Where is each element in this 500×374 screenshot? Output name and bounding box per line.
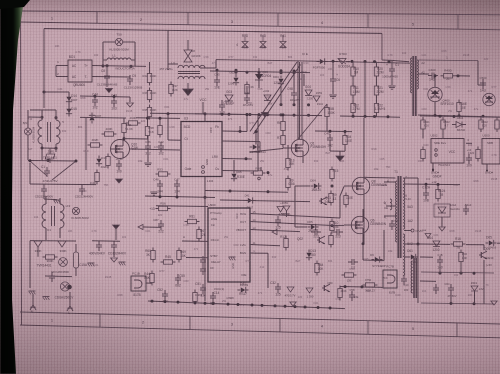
terminal N <box>32 299 34 305</box>
resistor X750 <box>366 283 375 287</box>
ruler bottom line B <box>20 325 500 338</box>
capacitor C50 <box>49 275 55 277</box>
capacitor C52 <box>162 293 168 295</box>
diode D1 <box>320 59 324 64</box>
resistor R37b <box>169 85 173 94</box>
wire t1 prim bot link <box>363 259 384 262</box>
IC U3 pin circles <box>202 166 205 169</box>
wire q8q6 mid <box>362 234 364 244</box>
resistor R60 <box>151 251 155 260</box>
wire q8 src <box>363 195 365 205</box>
wire vcc stub <box>202 102 204 114</box>
wire C8 drop <box>106 66 108 72</box>
wire c96 col <box>246 86 248 94</box>
junction aux a <box>216 69 219 72</box>
resistor R10b <box>330 222 334 231</box>
zener Z019 <box>471 286 478 291</box>
junction r6 top <box>282 113 285 116</box>
wire gnd join q1 <box>330 150 345 152</box>
wire LF1 tops join <box>30 109 56 111</box>
inductor L1 <box>107 58 131 60</box>
junction r38 top <box>146 117 149 120</box>
resistor R16 sec <box>454 242 463 246</box>
wire c34 top <box>92 240 120 242</box>
transistor Q04 <box>480 252 482 258</box>
wire u900 bottom bus <box>148 301 345 309</box>
wire r10 col d <box>352 113 354 116</box>
wire c1 to t1 <box>392 60 409 61</box>
ruler bottom divider 4 <box>367 321 369 335</box>
wire mid row a <box>205 191 288 193</box>
junction C43 top <box>113 95 116 98</box>
junction q10 gate row <box>123 137 126 140</box>
wire t2 out drop <box>477 61 479 85</box>
wire LF1 A bot <box>41 144 43 160</box>
node VD circle <box>411 229 414 232</box>
wire t3 right <box>420 280 436 282</box>
ruler bottom divider 1 <box>99 314 101 327</box>
wire u900 right lvg <box>250 245 280 246</box>
wire LF1 B top <box>55 110 57 120</box>
border frame left vertical <box>21 11 22 325</box>
junction LF1 TR <box>55 116 58 119</box>
wire q8 drain link <box>364 176 370 178</box>
junction fuse R <box>130 65 133 68</box>
wire sec row1b <box>466 244 484 246</box>
wire q8 drain <box>363 118 365 177</box>
ground C6 <box>329 94 336 96</box>
transistor Q02 <box>318 237 320 243</box>
junction pc7b a <box>361 285 364 288</box>
ruler top divider 1 <box>96 12 98 24</box>
wire sec col4 <box>417 272 419 281</box>
resistor R28 <box>95 173 99 182</box>
junction sec c <box>473 272 476 275</box>
junction bottom bus x195 <box>194 301 197 304</box>
wire fb drop <box>239 126 241 131</box>
wire d02 drop <box>235 70 237 76</box>
wire lrv r36 <box>260 167 262 171</box>
resistor R311 <box>421 120 425 129</box>
wire fuse branch R <box>134 42 136 66</box>
wire mid row b <box>220 200 310 202</box>
junction vcc l <box>167 112 170 115</box>
junction bot row b <box>364 115 367 118</box>
wire aux row <box>210 71 310 73</box>
wire r10 col a <box>352 61 354 67</box>
capacitor C1X <box>44 170 50 172</box>
junction snub c <box>364 60 367 63</box>
diode D64 sec <box>433 241 440 247</box>
wire lf2 row <box>30 240 76 242</box>
wire t1 prim bot up <box>383 230 385 261</box>
junction rail a3 <box>258 71 261 74</box>
wire u900 right bgn <box>250 252 268 254</box>
wire q1 gate run <box>250 149 283 153</box>
transformer L3 coil top <box>178 65 205 68</box>
IC U900 body <box>208 208 250 282</box>
wire CX2 gnd <box>43 194 45 199</box>
ground pc1b <box>119 261 126 263</box>
junction c13 top <box>159 117 162 120</box>
wire l2 vert <box>167 30 169 70</box>
wire sec feed <box>404 243 420 245</box>
IC U502 pin circles <box>435 149 438 152</box>
junction LF1 BL <box>41 147 44 150</box>
transistor Q500 inner <box>486 96 494 100</box>
resistor R40D <box>444 74 453 78</box>
transformer T1 sec B <box>403 234 405 276</box>
junction bottom bus x238 <box>237 303 240 306</box>
wire r40d out <box>456 75 471 77</box>
junction aux2 d <box>293 103 296 106</box>
diode G504 <box>456 122 462 128</box>
wire u3 cs col <box>257 115 259 171</box>
wire c36 top <box>147 136 149 144</box>
junction 12v b <box>437 183 440 186</box>
wire q1 col <box>287 145 289 159</box>
wire q400 top <box>434 76 436 87</box>
mosfet Q10 <box>111 140 130 159</box>
wire c34 drop <box>98 241 100 242</box>
wire c1 top <box>382 59 392 61</box>
wire C44 C43 top <box>80 96 130 97</box>
junction fb col <box>246 113 249 116</box>
diode D13b <box>306 253 311 257</box>
wire bridge pin2 <box>56 76 68 78</box>
wire bridge pin1 <box>56 65 68 67</box>
wire q6 src bus <box>362 244 364 260</box>
wire q04 drop <box>483 260 485 304</box>
capacitor C43 <box>111 100 117 102</box>
wire N drop <box>32 294 34 299</box>
capacitor C8 <box>104 75 110 77</box>
junction bot row d <box>387 115 390 118</box>
U502 gnd dot2 <box>432 170 434 172</box>
wire bridge out bot <box>92 76 130 79</box>
IC U502 body <box>431 139 464 164</box>
junction rail a5 <box>293 71 296 74</box>
capacitor C48 <box>157 183 163 185</box>
wire t1 12v row <box>404 183 461 186</box>
wire gnd stub <box>115 229 117 240</box>
capacitor C1B <box>437 259 443 261</box>
dark bezel left edge <box>0 0 24 374</box>
varistor R7D sym <box>242 42 248 48</box>
resistor R40b <box>245 85 249 94</box>
capacitor C14 <box>210 295 216 297</box>
resistor R24 <box>105 132 114 136</box>
capacitor C500 <box>480 82 486 84</box>
diode D6 <box>253 144 257 149</box>
wire u502 drop b <box>422 129 424 139</box>
wire q10 col <box>123 118 125 122</box>
diode G02 <box>233 78 238 82</box>
wire fuse right <box>123 41 135 43</box>
resistor R10 <box>351 67 355 76</box>
ruler top divider 2 <box>187 12 189 24</box>
transformer T2 primary <box>411 58 412 93</box>
junction c49 <box>329 130 332 133</box>
junction sec b <box>460 272 463 275</box>
junction r36 right <box>267 171 270 174</box>
junction aux e <box>258 113 261 116</box>
bridge rectifier BD1 <box>68 60 92 82</box>
choke LF2 winding B <box>60 204 64 228</box>
junction aux c <box>221 113 224 116</box>
wire t1 tap vd <box>404 230 411 232</box>
wire top bus drop <box>381 33 383 60</box>
choke LF1 winding A <box>38 120 42 144</box>
transistor Q500 circle <box>483 93 495 105</box>
ground mid q1 <box>336 156 344 161</box>
wire q400 drop <box>434 102 436 116</box>
varistor Z2b <box>58 241 66 247</box>
wire pin4 <box>466 142 472 144</box>
thermistor RT1 circle <box>25 128 32 135</box>
junction bottom bus x305 <box>304 306 307 309</box>
optocoupler PC7B inner <box>387 275 395 283</box>
wire LF2 A top <box>45 196 47 204</box>
capacitor C51 <box>200 287 206 289</box>
junction t2 bot a <box>434 114 437 117</box>
ground small mid <box>229 256 236 258</box>
junction drv a <box>331 185 334 188</box>
capacitor C36b <box>275 219 281 221</box>
resistor R6 <box>281 122 285 131</box>
resistor R38 <box>145 127 149 136</box>
wire res chain <box>149 70 151 73</box>
zener D13 <box>96 159 101 163</box>
fuse T50 input <box>115 38 122 45</box>
wire pc1b right <box>146 282 152 284</box>
wire c36 join <box>147 152 149 162</box>
capacitor C42b <box>314 229 316 235</box>
junction aux d <box>246 113 249 116</box>
capacitor C97 <box>219 104 225 106</box>
wire c47 gnd <box>176 190 178 197</box>
resistor R20 <box>374 67 378 76</box>
wire ce link <box>386 205 395 207</box>
junction sec top <box>417 243 420 246</box>
resistor R11 <box>351 86 355 95</box>
wire L drop <box>69 292 71 300</box>
wire u502 row <box>420 116 500 117</box>
wire q04 top <box>483 245 485 250</box>
varistor ZNR1 <box>45 154 55 159</box>
zener G03 <box>225 95 233 101</box>
IC U3 body <box>181 122 222 177</box>
choke LF1 winding B <box>56 120 60 144</box>
varistor D64b <box>306 288 313 293</box>
ground u3 a <box>150 191 157 193</box>
junction t2 bot b <box>458 114 461 117</box>
IC U502 gnd dot <box>432 168 434 170</box>
wire fb col up <box>246 115 248 132</box>
wire LF2 B top <box>59 198 61 204</box>
zener G088 box <box>434 204 450 217</box>
transformer T2 sec <box>417 60 418 89</box>
wire CX gnd link <box>44 198 57 201</box>
wire r10 col b <box>352 76 354 86</box>
wire u502 drop a <box>442 129 444 139</box>
wire c6 gnd <box>332 84 334 94</box>
wire c1 drop <box>391 60 393 66</box>
ground filter mid <box>106 89 113 93</box>
wire fuse branch L <box>102 42 104 66</box>
junction rail b5 <box>293 114 296 117</box>
wire sec row2 <box>420 256 433 258</box>
resistor R502 <box>441 120 445 129</box>
wire d05 col <box>233 160 235 171</box>
wire u3 fb out <box>222 130 247 133</box>
wire q10 col2 <box>123 133 125 139</box>
diode D04 <box>314 183 318 188</box>
varistor R41 lead <box>282 35 284 42</box>
wire CX3 drop <box>81 184 83 186</box>
wire CX2 drop <box>43 184 45 186</box>
wire t2 drop link <box>478 84 483 86</box>
resistor R312 <box>479 120 483 129</box>
wire q6 gate stub <box>344 224 351 226</box>
wire sec col2 <box>417 244 419 257</box>
wire out to q6 <box>330 224 344 226</box>
wire left col x30 <box>29 163 31 184</box>
wire sec row1 <box>420 243 450 245</box>
wire r124 drop <box>437 185 439 190</box>
ground input A <box>29 290 36 292</box>
wire t1 sec col <box>417 178 419 244</box>
wire r6 r7 join <box>282 131 284 136</box>
wire u900 right hvg <box>250 214 340 219</box>
capacitor C12A <box>423 192 429 194</box>
optocoupler PC1B <box>131 276 146 291</box>
wire u900 right out <box>250 222 330 226</box>
optocoupler PC7B <box>383 270 397 288</box>
diode R7D0 box <box>338 59 346 65</box>
junction 12v a <box>425 183 428 186</box>
wire C9 drop2 <box>129 75 131 77</box>
cap CD6A dark blob <box>67 285 72 290</box>
wire aux row2 <box>195 114 322 116</box>
capacitor C98 <box>291 92 297 94</box>
resistor R124 <box>436 190 440 199</box>
capacitor C44 <box>92 99 98 101</box>
diode D41 mid <box>248 198 252 203</box>
transformer T1 primary top <box>396 181 397 219</box>
junction lrv <box>245 157 248 160</box>
capacitor C6 <box>330 78 336 80</box>
wire RT1 loop top <box>28 116 42 118</box>
resistor R310 <box>421 150 425 159</box>
wire u3 cs <box>222 170 258 173</box>
transformer T3 winding <box>411 261 413 293</box>
offpage arrow left <box>138 224 143 229</box>
resistor R46 <box>147 91 151 100</box>
wire u900 right vboot <box>250 230 300 232</box>
screen shading bottom-left <box>0 224 260 374</box>
wire c48 gnd <box>159 190 161 197</box>
capacitor C47 <box>174 183 180 185</box>
resistor R44 <box>150 274 154 283</box>
wire r20 col a <box>376 62 378 67</box>
wire pc7b row <box>340 286 383 289</box>
junction mid row a2 <box>267 190 270 193</box>
wire stby row <box>186 257 208 259</box>
ground input B <box>43 296 50 298</box>
zener G04 <box>305 90 312 96</box>
wire gnd drop q1 <box>339 151 341 155</box>
junction aux2 b <box>293 70 296 73</box>
resistor R69 <box>177 251 181 260</box>
wire LF1 A top <box>41 110 43 120</box>
capacitor C95 <box>214 79 220 81</box>
wire X row <box>28 160 76 163</box>
junction drv b <box>331 224 334 227</box>
junction bottom bus x318 <box>317 306 320 309</box>
junction bottom bus x285 <box>284 305 287 308</box>
wire LF2 B bot <box>59 228 61 238</box>
wire r20 col b <box>376 76 378 86</box>
wire q8 gate stub <box>344 185 353 187</box>
resistor R12b <box>284 239 288 248</box>
transformer T1 primary bot <box>396 213 397 242</box>
wire snub left drop <box>297 61 299 139</box>
resistor R313 <box>495 120 499 129</box>
zener G02 pair <box>283 206 290 211</box>
junction t2 bot c <box>482 115 485 118</box>
diode D65 <box>489 240 493 245</box>
ground aux rail <box>261 113 268 118</box>
ground C1 <box>388 85 395 87</box>
tvs D8 pair <box>184 50 192 56</box>
junction pc7b b <box>344 285 347 288</box>
wire r6 top <box>282 115 284 122</box>
junction aux b <box>235 69 238 72</box>
wire t2 bot <box>418 115 500 117</box>
resistor R12 <box>351 104 355 113</box>
wire r5b bot <box>326 117 328 132</box>
junction u502 b <box>453 115 456 118</box>
junction r04 <box>344 130 347 133</box>
resistor R2 line <box>46 255 55 259</box>
ground L3 <box>183 89 193 96</box>
wire sg row <box>37 247 39 257</box>
wire c49 gnd <box>329 144 331 151</box>
capacitor C96 <box>244 97 250 99</box>
junction sec a <box>439 272 442 275</box>
ruler top divider 3 <box>277 13 279 26</box>
wire u3 gnd row <box>145 196 215 198</box>
junction snub a <box>332 60 335 63</box>
wire CX row top <box>30 183 96 186</box>
wire drv row2 <box>295 226 307 228</box>
resistor R27 <box>91 143 100 147</box>
wire top bus <box>44 29 382 34</box>
junction rail b3 <box>266 113 269 116</box>
wire d04 drop <box>280 86 282 105</box>
ground sec right <box>491 301 497 305</box>
junction aux2 e <box>307 103 310 106</box>
spark gap SG1 <box>59 258 68 267</box>
wire r510 drop <box>458 112 460 116</box>
junction bottom bus x152 <box>151 300 154 303</box>
wire vcc2 stub <box>303 74 305 86</box>
wire r38 drop <box>147 118 149 127</box>
junction bridge out <box>106 64 109 67</box>
capacitor C55 <box>175 277 181 279</box>
junction D14 top <box>43 91 46 94</box>
